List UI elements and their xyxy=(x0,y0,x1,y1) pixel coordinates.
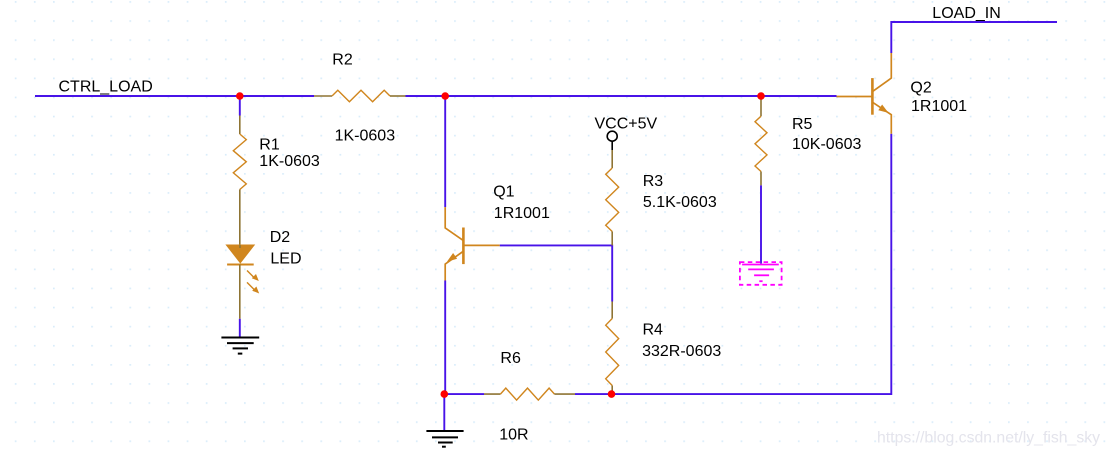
svg-text:1K-0603: 1K-0603 xyxy=(335,127,396,144)
svg-text:R3: R3 xyxy=(643,173,664,190)
resistor R6 xyxy=(484,393,500,395)
wire Q1 base to R3/R4 node xyxy=(500,245,613,301)
resistor R4 xyxy=(611,302,613,319)
svg-text:R6: R6 xyxy=(500,350,521,367)
wire LOAD_IN net xyxy=(891,22,1057,53)
svg-text:1R1001: 1R1001 xyxy=(494,205,550,222)
LED D2 xyxy=(226,245,259,319)
wire main net between R2 and Q2 base xyxy=(406,95,837,97)
svg-text:R1: R1 xyxy=(259,137,280,154)
svg-text:332R-0603: 332R-0603 xyxy=(642,343,721,360)
svg-text:1R1001: 1R1001 xyxy=(911,98,967,115)
svg-text:5.1K-0603: 5.1K-0603 xyxy=(643,194,717,211)
svg-text:LED: LED xyxy=(270,250,301,267)
junction at R5 xyxy=(757,92,765,100)
ground under D2 xyxy=(221,338,259,354)
svg-text:1K-0603: 1K-0603 xyxy=(259,153,320,170)
junction at R1 xyxy=(236,92,244,100)
earth ground (dashed box) under R5 xyxy=(740,262,782,285)
wire LED cathode to ground xyxy=(239,319,241,338)
wire Q1 collector vertical xyxy=(444,96,446,207)
transistor Q1 xyxy=(445,207,500,280)
wire R1 top stub xyxy=(239,96,241,116)
resistor R1 xyxy=(239,116,241,135)
svg-text:Q2: Q2 xyxy=(910,80,931,97)
wire Q1 emitter down xyxy=(444,281,446,395)
power port VCC+5V xyxy=(607,131,617,150)
wire R5 bottom to earth ground xyxy=(760,185,762,263)
resistor R3 xyxy=(611,150,613,168)
transistor Q2 xyxy=(837,53,892,134)
junction at Q1 collector xyxy=(441,92,449,100)
wire CTRL_LOAD horizontal main net xyxy=(35,95,314,97)
ground under Q1/R6 node xyxy=(426,431,463,447)
svg-text:https://blog.csdn.net/ly_fish_: https://blog.csdn.net/ly_fish_sky xyxy=(877,430,1100,447)
wire bottom net left of R6 xyxy=(444,393,484,395)
junction at R4 bottom xyxy=(608,390,616,398)
junction at bottom left xyxy=(441,390,449,398)
resistor R5 xyxy=(760,97,762,116)
svg-text:D2: D2 xyxy=(270,229,291,246)
svg-text:10R: 10R xyxy=(499,426,528,443)
svg-text:VCC+5V: VCC+5V xyxy=(595,116,658,133)
svg-text:CTRL_LOAD: CTRL_LOAD xyxy=(59,79,153,96)
wire bottom net right of R6 to Q2 emitter xyxy=(575,134,891,394)
svg-text:R2: R2 xyxy=(332,51,353,68)
svg-text:Q1: Q1 xyxy=(493,184,514,201)
svg-text:10K-0603: 10K-0603 xyxy=(792,136,861,153)
svg-text:LOAD_IN: LOAD_IN xyxy=(932,5,1000,22)
wire junction to ground under Q1 xyxy=(443,394,445,431)
svg-text:R5: R5 xyxy=(792,116,813,133)
svg-text:R4: R4 xyxy=(643,321,664,338)
resistor R2 xyxy=(314,95,332,97)
